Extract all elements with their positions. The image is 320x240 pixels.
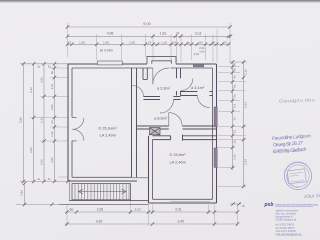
lower room bottom wall outer (149, 202, 217, 204)
big room bottom inner (72, 176, 132, 178)
lower room top wall B (153, 136, 217, 140)
svg-text:51465 bergisch gl.: 51465 bergisch gl. (276, 218, 297, 222)
svg-text:D 15,6m²: D 15,6m² (170, 152, 187, 157)
svg-text:29ut 2o: 29ut 2o (302, 193, 320, 199)
lower room left wall inner (152, 140, 154, 200)
door D2 hall to middle room (arc down-right) (160, 100, 174, 114)
svg-text:8o: 8o (50, 71, 54, 75)
svg-text:2,33: 2,33 (243, 159, 247, 165)
hall bottom wall (144, 97, 181, 100)
exterior stairs (72, 184, 131, 200)
svg-text:4o: 4o (232, 75, 236, 79)
ticks line1 (66, 25, 232, 28)
svg-text:24: 24 (50, 120, 54, 124)
NE room bottom wall (181, 92, 213, 96)
svg-text:64: 64 (199, 40, 203, 44)
svg-text:Gauigzu ties: Gauigzu ties (279, 97, 316, 103)
svg-text:64: 64 (212, 40, 216, 44)
entrance porch (147, 57, 176, 64)
terrace lower edge (59, 203, 149, 205)
svg-text:1,1o: 1,1o (50, 131, 54, 137)
scanner top edge (0, 0, 320, 2)
svg-text:2,6o: 2,6o (39, 159, 43, 165)
svg-text:1,4o: 1,4o (232, 154, 236, 160)
svg-text:Br 4,76m: Br 4,76m (100, 48, 113, 52)
svg-text:4o: 4o (187, 40, 191, 44)
right wall outer (216, 64, 218, 203)
window W1 top-left (outlined) (98, 61, 123, 65)
svg-text:6o: 6o (70, 208, 74, 212)
big room bottom wall outer (68, 180, 137, 182)
terrace left edge (68, 181, 70, 201)
left rotated dim labels (19, 65, 54, 182)
svg-text:2,1o: 2,1o (243, 69, 247, 75)
ticks line3 (66, 43, 230, 46)
handwriting 3 lines (272, 133, 311, 155)
middle room bottom wall A (137, 126, 217, 129)
svg-text:24: 24 (232, 63, 236, 66)
top wall inner (72, 67, 213, 69)
window W4 right wall upper (dark) (214, 107, 217, 127)
svg-text:24: 24 (223, 40, 227, 44)
svg-text:2,36: 2,36 (97, 208, 104, 212)
svg-text:a 3,1m²: a 3,1m² (191, 85, 205, 90)
svg-text:1,1o: 1,1o (134, 208, 141, 212)
stair direction arrow (79, 189, 127, 193)
chimney crossed box (150, 128, 161, 135)
svg-text:2,8o: 2,8o (29, 147, 33, 153)
svg-text:mail psb-bau@web.de: mail psb-bau@web.de (276, 232, 302, 236)
svg-text:1,45: 1,45 (103, 40, 109, 44)
svg-text:ARCHITEKTENKAMMER: ARCHITEKTENKAMMER (283, 161, 307, 174)
svg-text:psb: psb (264, 202, 274, 208)
svg-text:12: 12 (232, 140, 236, 144)
svg-text:planung schmitz bauunternehmun: planung schmitz bauunternehmung (276, 203, 318, 207)
svg-text:3,45: 3,45 (177, 220, 184, 224)
wall stub beside entrance (143, 68, 147, 79)
dim texts top (68, 22, 227, 56)
svg-text:2,0o: 2,0o (39, 77, 43, 83)
left wall outer (67, 64, 69, 181)
svg-text:1,35: 1,35 (79, 40, 85, 44)
svg-text:2,31: 2,31 (175, 208, 182, 212)
svg-text:2,2o: 2,2o (29, 87, 33, 93)
lower room bottom inner (153, 198, 213, 200)
entrance door leaf and arc (153, 68, 169, 84)
svg-text:1,7o: 1,7o (50, 83, 54, 89)
left wall inner (71, 68, 73, 177)
svg-text:9,00: 9,00 (143, 22, 150, 26)
svg-text:4,35: 4,35 (96, 220, 103, 224)
svg-text:14: 14 (232, 117, 236, 121)
stair treads hatch (75, 184, 129, 200)
address lines (276, 208, 302, 236)
svg-text:4o: 4o (37, 177, 40, 181)
svg-text:2,6o: 2,6o (194, 52, 200, 56)
window W3 bottom (dark) (170, 200, 210, 202)
svg-text:12: 12 (68, 40, 72, 44)
lower room left wall outer (148, 136, 150, 203)
landing edge line (132, 177, 149, 179)
svg-text:1,o6: 1,o6 (161, 40, 167, 44)
right wall inner (212, 68, 214, 199)
svg-text:1,8o: 1,8o (20, 190, 24, 196)
door jamb stubs wall B (171, 135, 183, 141)
ticks line2 (66, 35, 232, 38)
svg-text:Freundline Ludgrum: Freundline Ludgrum (272, 133, 311, 142)
svg-text:2,o3: 2,o3 (195, 32, 202, 36)
svg-text:24: 24 (176, 31, 179, 35)
window W5 right wall lower (dark) (214, 148, 217, 168)
svg-text:1,45: 1,45 (129, 40, 135, 44)
svg-text:1,4o: 1,4o (199, 50, 205, 54)
top wall outer (68, 63, 217, 65)
interior wall big room / hall (double) (132, 68, 137, 177)
window W2 top-right (dark) (193, 64, 204, 67)
svg-text:9o: 9o (232, 94, 236, 98)
svg-text:2,9o: 2,9o (19, 117, 23, 123)
svg-text:2,33: 2,33 (243, 102, 247, 108)
svg-text:14: 14 (148, 40, 152, 44)
svg-text:4,0o: 4,0o (50, 157, 54, 163)
terrace bottom line (69, 200, 149, 202)
svg-text:18: 18 (232, 68, 236, 71)
svg-text:9o: 9o (232, 84, 236, 88)
svg-text:LA 2,46m: LA 2,46m (170, 159, 186, 164)
door D3 to NE room (181, 79, 193, 91)
balcony double door (left wall) (72, 118, 84, 141)
svg-text:5o: 5o (37, 65, 40, 69)
svg-text:a 8,6m²: a 8,6m² (154, 116, 168, 121)
svg-text:D 26,9om²: D 26,9om² (99, 125, 118, 130)
svg-text:a 2,8m²: a 2,8m² (157, 86, 171, 91)
svg-text:12: 12 (232, 130, 236, 134)
svg-text:2,4: 2,4 (232, 104, 236, 108)
extension lines top (68, 23, 231, 62)
right rotated dim labels (232, 63, 247, 165)
svg-text:14: 14 (172, 40, 176, 44)
stamp (284, 162, 311, 189)
svg-text:LA 2,49m: LA 2,49m (100, 132, 116, 137)
wall hall / room NE (double vertical) (177, 68, 181, 96)
svg-text:4,98: 4,98 (107, 32, 114, 36)
svg-text:2,1o: 2,1o (39, 117, 43, 123)
svg-text:2,0o: 2,0o (50, 104, 54, 110)
door D4 (arc down-left) (198, 96, 210, 108)
top dim line 1 (9,00) (68, 27, 231, 44)
svg-text:5o: 5o (48, 177, 51, 181)
svg-text:1,6o: 1,6o (160, 32, 167, 36)
svg-text:3o: 3o (242, 204, 245, 208)
door D1 hall (arc up-right) (132, 85, 143, 96)
door D5 middle room (leaf+arc up-right) (169, 113, 182, 126)
